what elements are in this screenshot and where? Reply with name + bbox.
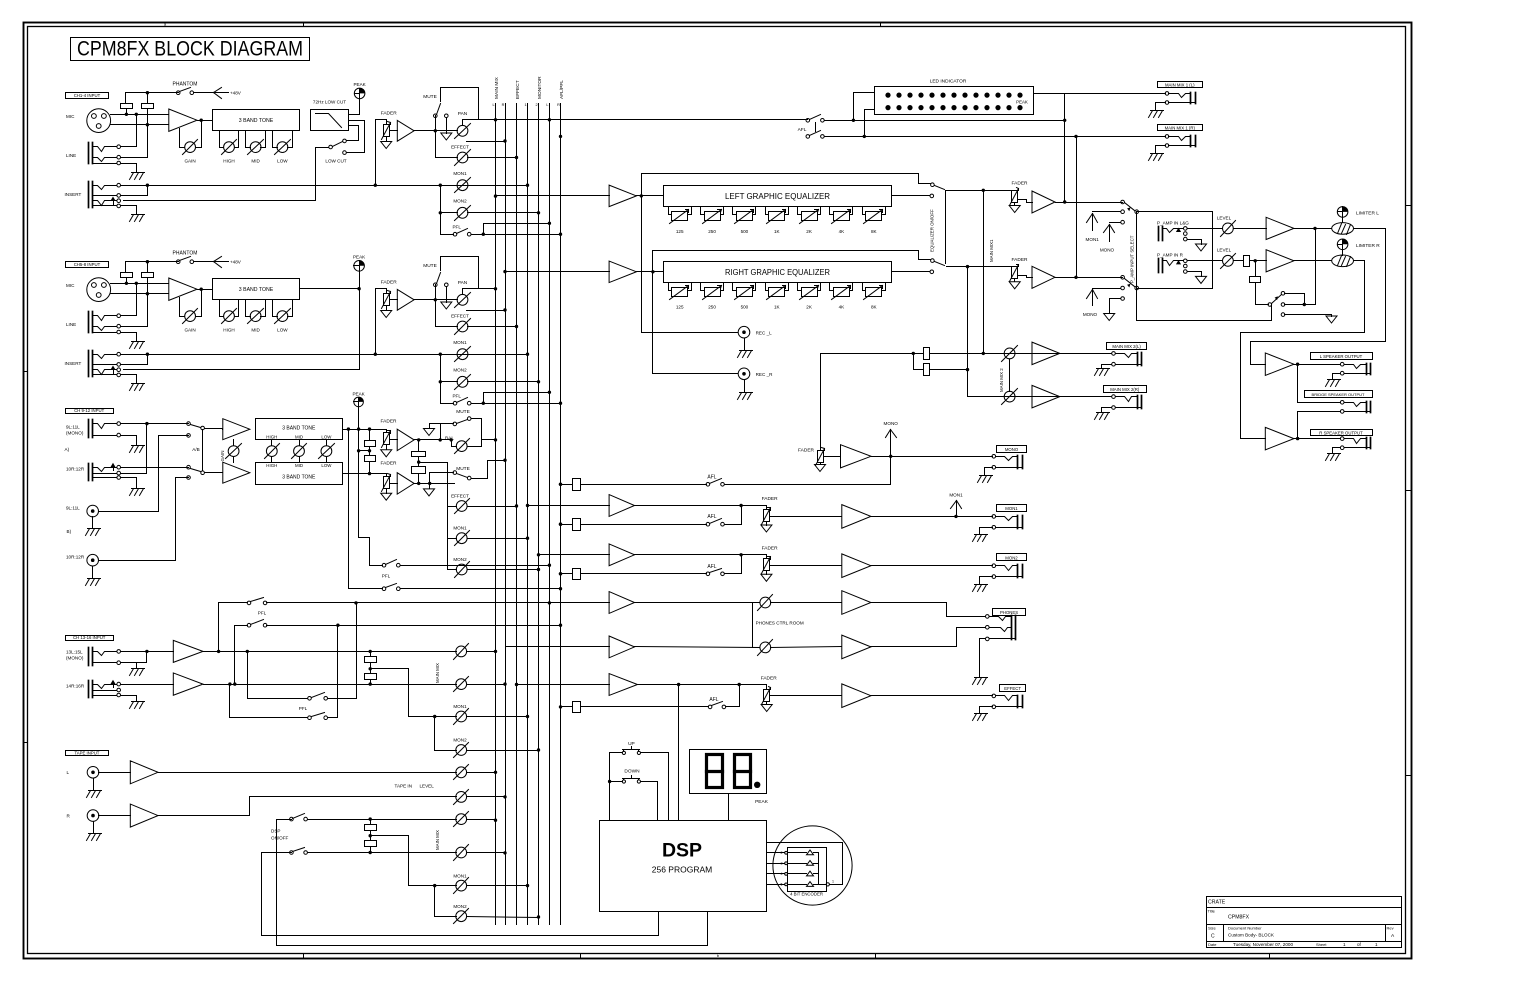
CH13-16 jack 14R:16R [88,681,90,698]
CH9-12 wires coupling caps [369,430,371,441]
CH5-8 wires pan [463,288,479,290]
wire AFL to mono [725,484,891,486]
encoder common wire [818,853,820,885]
CH5-8 XLR connector MIC [87,278,111,302]
MAIN MIX 1 L ground [1151,110,1164,112]
button DOWN [622,780,625,783]
CH13-16 ground jack L [132,663,137,669]
svg-text:LOW: LOW [277,327,288,332]
DSP ON/OFF switch A [290,817,294,821]
svg-text:MAIN MIX 2(L): MAIN MIX 2(L) [1112,344,1141,349]
CH9-12 mute A ground arm [430,423,441,425]
svg-text:TAPE IN: TAPE IN [395,784,413,789]
svg-text:FADER: FADER [1012,257,1029,263]
encoder output contact [826,883,829,886]
P_AMP select L MON1 feed [1093,211,1121,213]
P_AMP IN L ground wire [1188,240,1202,245]
CH1-4 wires gain pot [179,129,181,148]
CH1-4 wire pan L to bus [479,119,808,121]
border tick top 1 [303,23,305,27]
svg-text:CH5-8 INPUT: CH5-8 INPUT [74,262,101,267]
CH13-16 wire line R [204,684,457,686]
svg-text:LOW: LOW [321,434,332,439]
MONO AFL resistor [573,479,581,491]
DSP pot MAIN MIX L [456,814,467,825]
CH5-8 wire tone to insert send [124,289,360,370]
MONO row amp [841,445,872,468]
CH5-8 pot LOW [272,300,274,317]
CH13-16 pot MAIN MIX L [456,646,467,657]
bus AFL/PFL L [549,104,551,925]
7-segment decimal point [754,782,760,788]
CH1-4 pot GAIN [185,142,196,153]
svg-text:72Hz LOW CUT: 72Hz LOW CUT [313,100,346,105]
MAIN MIX 2 gang [1009,360,1011,392]
UP/DOWN rails [609,753,611,821]
CH13-16 pot MON2 [456,745,467,756]
TAPE wire L [99,772,131,774]
EFFECT row wire out [638,684,767,686]
svg-text:2: 2 [535,103,537,107]
svg-text:Date: Date [1208,942,1217,947]
CH9-12 ground jack A-R [132,488,145,490]
resistor bridge [1250,277,1261,283]
MON1 AFL tap [559,523,562,526]
PHONES L amp 2 [842,591,871,615]
encoder box [788,848,827,892]
svg-text:8K: 8K [871,305,878,310]
CH1-4 mute ground arm [446,118,448,134]
svg-text:2K: 2K [806,229,813,234]
vertical from amp L out [1315,229,1317,305]
LEFT GRAPHIC EQUALIZER EQUALIZER ON/OFF switch lever [935,186,945,190]
wire resistor to amp R [1250,260,1267,262]
CH9-12 wire peak/pfl vertical [358,407,360,538]
MON1 output jack [1017,516,1019,529]
wire LED feed R [865,110,875,137]
DSP pot MAIN MIX R [456,847,467,858]
RIGHT GRAPHIC EQUALIZER slider 500 [732,283,734,291]
pot PHONES L [760,597,771,608]
CH1-4 XLR connector MIC [87,109,111,133]
resistor R-in [1244,256,1250,267]
wire jack R to pot [1188,260,1223,262]
MON2 row output wire [871,565,993,567]
svg-text:MON2: MON2 [453,557,467,562]
svg-text:PHONES CTRL ROOM: PHONES CTRL ROOM [756,620,804,625]
MONO arrow L [1109,225,1111,242]
EFFECT AFL join [726,706,740,708]
EFFECT jack ground wire [980,707,993,714]
CH9-12 wire tone A out [343,429,387,431]
svg-text:10R:12R: 10R:12R [66,467,85,472]
svg-text:MON2: MON2 [453,368,467,373]
svg-text:FADER: FADER [761,676,778,682]
DSP to encoder wires [767,852,785,854]
svg-text:L SPEAKER OUTPUT: L SPEAKER OUTPUT [1320,354,1363,359]
P_AMP select R MONO feed [1093,288,1121,290]
7-segment digit 1 [707,755,723,788]
bridge select ground wire [1285,314,1332,316]
MON2 jack ground [975,584,988,586]
wire main2 R line [968,396,1112,398]
svg-text:4K: 4K [839,305,846,310]
CH5-8 wire fader to amp [390,299,398,301]
LEFT GRAPHIC EQUALIZER slider 1K [765,207,767,215]
svg-text:AFL/PFL: AFL/PFL [559,80,565,99]
CH9-12 wire amp A out [415,439,452,441]
RIGHT GRAPHIC EQUALIZER slider 125 [668,283,670,291]
wire speaker R out [1294,438,1341,440]
CH9-12 pot MON2 [456,564,467,575]
MON1 row wire fader to amp [770,516,842,518]
svg-text:B): B) [67,529,72,534]
CH9-12 block 3 BAND TONE A [256,419,343,440]
MAIN MIX 1 L label box [1158,82,1203,88]
MON2 output label box [997,554,1027,561]
wire pot R to resistor [1234,260,1244,262]
DSP box [600,821,767,912]
CH9-12 pot EFFECT [456,501,467,512]
CH1-4 wire effect to bus [468,157,517,159]
svg-text:CH 13-16 INPUT: CH 13-16 INPUT [73,635,106,640]
svg-text:LINE: LINE [66,153,76,158]
CH9-12 channel amp B [397,473,414,495]
title block dividers [1223,925,1225,942]
svg-text:3 BAND TONE: 3 BAND TONE [282,425,316,431]
wire limiter L out [1251,229,1386,365]
MON1 bus arrow [956,501,958,510]
P_AMP IN R ground wire [1188,272,1202,277]
CH5-8 wire pfl to buses [472,403,561,405]
CH9-12 capacitor CA [365,441,376,447]
bus MONITOR 2 [538,104,540,925]
LEFT GRAPHIC EQUALIZER box [664,186,892,207]
MON1 row bus wire [528,505,610,507]
svg-text:EFFECT: EFFECT [515,80,521,99]
PHONES R amp 2 [842,635,871,659]
CH9-12 RCA 10R:12R [87,554,99,566]
CH9-12 wire RCA L [99,511,159,513]
wire main mix 2 R sum [913,354,915,370]
MON1 row output wire [871,516,993,518]
svg-text:Tuesday, November 07, 2000: Tuesday, November 07, 2000 [1233,942,1293,947]
L SPEAKER jack [1366,364,1368,375]
CH5-8 wire amp out [415,299,458,301]
P_AMP select L MONO feed [1110,222,1121,224]
switch AFL R [806,135,810,139]
wire MAIN MIX1 R vertical [1076,137,1078,278]
REC_L ground [740,350,753,352]
svg-text:REC _R: REC _R [756,372,774,377]
CH5-8 phantom rail [126,261,179,263]
CH9-12 wire pfl to bus R [401,588,561,590]
CH13-16 wires jack R [121,684,174,686]
switch AFL L [806,119,810,123]
title box CPM8FX BLOCK DIAGRAM [71,38,310,61]
CH9-12 capacitor CB [365,456,376,462]
svg-text:1K: 1K [774,229,781,234]
CH9-12 jack 9L:11L [88,420,90,438]
PHONES R wire to pot [635,647,760,648]
MAIN MIX 1 R jack [1190,136,1192,147]
CH9-12 switch MUTE A [440,424,442,440]
capacitor main2 R [924,364,930,376]
svg-text:AFL: AFL [798,127,807,133]
R SPEAKER jack [1366,438,1368,449]
svg-text:MAIN MIX 1 (R): MAIN MIX 1 (R) [1165,125,1196,130]
svg-text:HIGH: HIGH [223,158,234,163]
bus MAIN MIX L [495,104,497,925]
svg-text:MON1: MON1 [1086,237,1100,242]
CH1-4 wire pan R to bus [467,141,506,143]
CH5-8 wire phantom to caps [125,262,127,273]
CH9-12 jack 10R:12R [88,464,90,481]
CH5-8 channel amp [397,289,414,310]
CH1-4 capacitor C1 [121,104,133,109]
CH1-4 pot HIGH [219,131,221,148]
wire AFL R line [825,136,1166,138]
svg-text:MONITOR: MONITOR [537,76,543,99]
svg-text:MAIN MIX 2: MAIN MIX 2 [999,368,1004,392]
CH9-12 capacitor sum B [412,467,426,474]
CH1-4 wire mic cold [111,124,169,126]
svg-text:L: L [492,103,494,107]
CH9-12 switch PFL upper [382,563,386,567]
MAIN MIX 1 R ground [1151,153,1164,155]
svg-text:EQUALIZER ON/OFF: EQUALIZER ON/OFF [930,209,935,252]
PHONES jack ground [975,677,988,679]
master amp L [1018,200,1033,203]
wire main mix 2 L line [821,353,1112,355]
CH1-4 block 72Hz LOW CUT [311,110,349,131]
svg-text:3 BAND TONE: 3 BAND TONE [239,118,274,124]
EQUALIZER ON/OFF gang link [945,191,947,264]
border tick right 1 [1406,205,1412,207]
CH5-8 switch PHANTOM [176,260,180,264]
CH5-8 switch MUTE [435,285,437,300]
CH1-4 mute rail [441,87,479,89]
MAIN MIX 2 L ground wire [1102,365,1112,369]
P_AMP IN R ground [1196,276,1207,283]
wire to AFL switch [581,484,707,486]
L SPEAKER ground [1328,379,1341,381]
wire EQ L down to main mix 2 [983,191,985,354]
svg-text:MAIN MIX: MAIN MIX [494,76,500,99]
svg-text:PAN: PAN [458,111,468,117]
svg-text:125: 125 [676,305,684,310]
CH5-8 wires gain pot [179,298,181,317]
CH5-8 pot MID [245,300,247,317]
bus EFFECT [516,104,518,925]
RIGHT GRAPHIC EQUALIZER input amp [609,261,636,283]
svg-text:MONO: MONO [1100,247,1115,252]
CH1-4 pot PAN [457,125,468,136]
CH1-4 switch LOW CUT [329,145,333,149]
svg-text:125: 125 [676,229,684,234]
CH1-4 capacitor C2 [142,104,154,109]
RIGHT GRAPHIC EQUALIZER EQUALIZER ON/OFF switch lever [935,262,945,266]
svg-text:MONO: MONO [1083,312,1098,317]
svg-text:PFL: PFL [452,393,461,398]
CH9-12 wire pfl to bus L [401,565,550,567]
capacitor main2 L [924,348,930,360]
CH1-4 jack INSERT [88,182,90,208]
MON1 wire to AFL switch [581,524,707,526]
border tick right 2 [1406,490,1412,492]
P_AMP select R ground feed [1110,299,1121,314]
border tick left 2 [24,742,28,744]
svg-text:+48V: +48V [230,259,242,264]
bus MONITOR 1 [527,104,529,925]
EFFECT output jack [1017,696,1019,708]
MON1 row amp 1 [609,495,634,517]
RIGHT GRAPHIC EQUALIZER bypass wire [653,251,931,272]
CH9-12 ground RCA L [88,528,101,530]
P_AMP IN L ground [1196,244,1207,251]
CH13-16 amp L [173,640,203,662]
CH5-8 capacitor C2 [142,273,154,278]
MONO output jack [1017,456,1019,469]
MON1 row wire to fader [635,505,767,507]
MAIN MIX 1 R ground wire [1156,146,1166,154]
CH9-12 wire to amps [205,428,223,430]
EFFECT to DSP wire [678,685,680,821]
CH1-4 wire lowcut out2 [347,121,365,153]
CH5-8 preamp [169,278,197,300]
PHONES pots gang [753,603,760,648]
speaker amp L [1265,353,1294,376]
svg-text:1: 1 [1375,942,1378,947]
CH1-4 wire pfl to buses [472,234,561,236]
svg-text:MAIN MIX 2(R): MAIN MIX 2(R) [1110,387,1140,392]
wire EQ R down to main mix 2 [967,267,969,397]
CH1-4 indicator PEAK [354,88,365,99]
encoder feed line [767,843,843,885]
LEFT GRAPHIC EQUALIZER bypass wire [642,174,931,196]
CH13-16 wires coupling caps [370,652,372,657]
CH9-12 output caps vertical [418,440,420,452]
CH5-8 indicator PEAK [354,261,365,272]
MON1 jack ground wire [980,528,993,535]
switch P_AMP select R [1121,276,1125,280]
encoder element 2 [807,861,814,866]
svg-text:FADER: FADER [798,448,815,454]
LEFT GRAPHIC EQUALIZER slider 8K [862,207,864,215]
EFFECT AFL resistor [573,702,581,713]
LEFT GRAPHIC EQUALIZER wire box out [892,195,930,197]
CH1-4 preamp [169,109,197,131]
switch bridge select [1268,303,1272,307]
svg-text:MAIN MIX 1 (L): MAIN MIX 1 (L) [1165,82,1195,87]
7-segment digit 2 [735,755,751,788]
svg-text:Title: Title [1208,908,1216,913]
wire EQ L out to fader [947,190,1011,192]
svg-text:Custom Body- BLOCK: Custom Body- BLOCK [1228,932,1275,937]
MON2 row wire fader to amp [770,565,842,567]
svg-text:10R:12R: 10R:12R [66,555,85,560]
L SPEAKER OUTPUT label box [1311,353,1373,360]
output row PHONES R [506,646,610,648]
CH9-12 A/B gang link [202,430,204,471]
TAPE amp L [130,761,158,784]
svg-text:MID: MID [295,434,303,439]
master amp R [1018,276,1033,278]
CH1-4 wire amp to tone [198,120,213,122]
svg-text:ON/OFF: ON/OFF [271,836,289,841]
CH1-4 pot EFFECT [457,152,468,163]
svg-text:MUTE: MUTE [423,94,437,100]
border tick top 2 [880,23,882,27]
svg-text:CPM8FX: CPM8FX [1228,915,1250,921]
svg-text:UP: UP [628,741,635,747]
CH5-8 wire mic hot [111,283,169,285]
MAIN MIX 1 R label box [1158,125,1203,131]
EFFECT output label box [1000,685,1026,692]
CH9-12 switch PFL lower [382,587,386,591]
svg-text:AFL: AFL [709,697,718,703]
CH9-12 wire mute A out [472,419,482,447]
svg-text:FADER: FADER [381,111,398,117]
amp main2 R [1032,385,1060,408]
MON1 row amp 2 [842,505,871,529]
CH13-16 label box [66,636,114,641]
wire limiter R out [1241,261,1365,439]
svg-text:GAIN: GAIN [184,158,195,163]
svg-text:R: R [502,103,505,107]
bridge select ground [1326,316,1337,323]
CH1-4 wire fader to amp [390,130,398,132]
7seg to DSP wire [728,794,730,821]
DSP wire sw A [308,819,457,821]
CH9-12 mute B ground arm [429,484,431,489]
CH5-8 ground insert jack [132,383,145,385]
svg-text:MON1: MON1 [453,526,467,531]
encoder element 4 [807,882,814,887]
bridge wires [1297,365,1299,403]
DSP pot MON1 [456,880,467,891]
svg-text:MON1: MON1 [453,171,467,176]
TAPE ground R [89,833,102,835]
CH13-16 pot MAIN MIX R [456,679,467,690]
P_AMP box [1137,212,1213,289]
pot MAIN MIX 2 R [1004,391,1015,402]
DSP wire sw B [308,852,457,854]
CH5-8 wire pan L to bus [479,288,496,290]
MON2 row bus wire [539,554,610,556]
svg-text:MON2: MON2 [1005,556,1018,561]
encoder circle [773,826,852,905]
svg-text:MIC: MIC [66,114,75,119]
AFL gang link [815,123,817,132]
TAPE RCA R [87,810,99,822]
CH1-4 pot MON1 [457,180,468,191]
svg-text:PHONES: PHONES [1000,610,1018,615]
CH1-4 wire insert return (MON feed) [121,185,528,187]
svg-text:EFFECT: EFFECT [1004,686,1021,691]
border tick bottom 1 [303,954,305,959]
MONO arrow R [1092,290,1094,306]
svg-text:P_AMP IN L&G: P_AMP IN L&G [1157,220,1189,225]
CH5-8 wire effect to bus [468,326,517,328]
EFFECT row amp 2 [842,684,871,708]
svg-text:1: 1 [524,103,526,107]
svg-text:BRIDGE SPEAKER OUTPUT: BRIDGE SPEAKER OUTPUT [1312,392,1365,397]
svg-text:PEAK: PEAK [352,392,365,397]
CH13-16 pot MON1 [456,711,467,722]
svg-text:EFFECT: EFFECT [451,145,469,150]
LEFT GRAPHIC EQUALIZER rec feed wire [641,196,643,333]
